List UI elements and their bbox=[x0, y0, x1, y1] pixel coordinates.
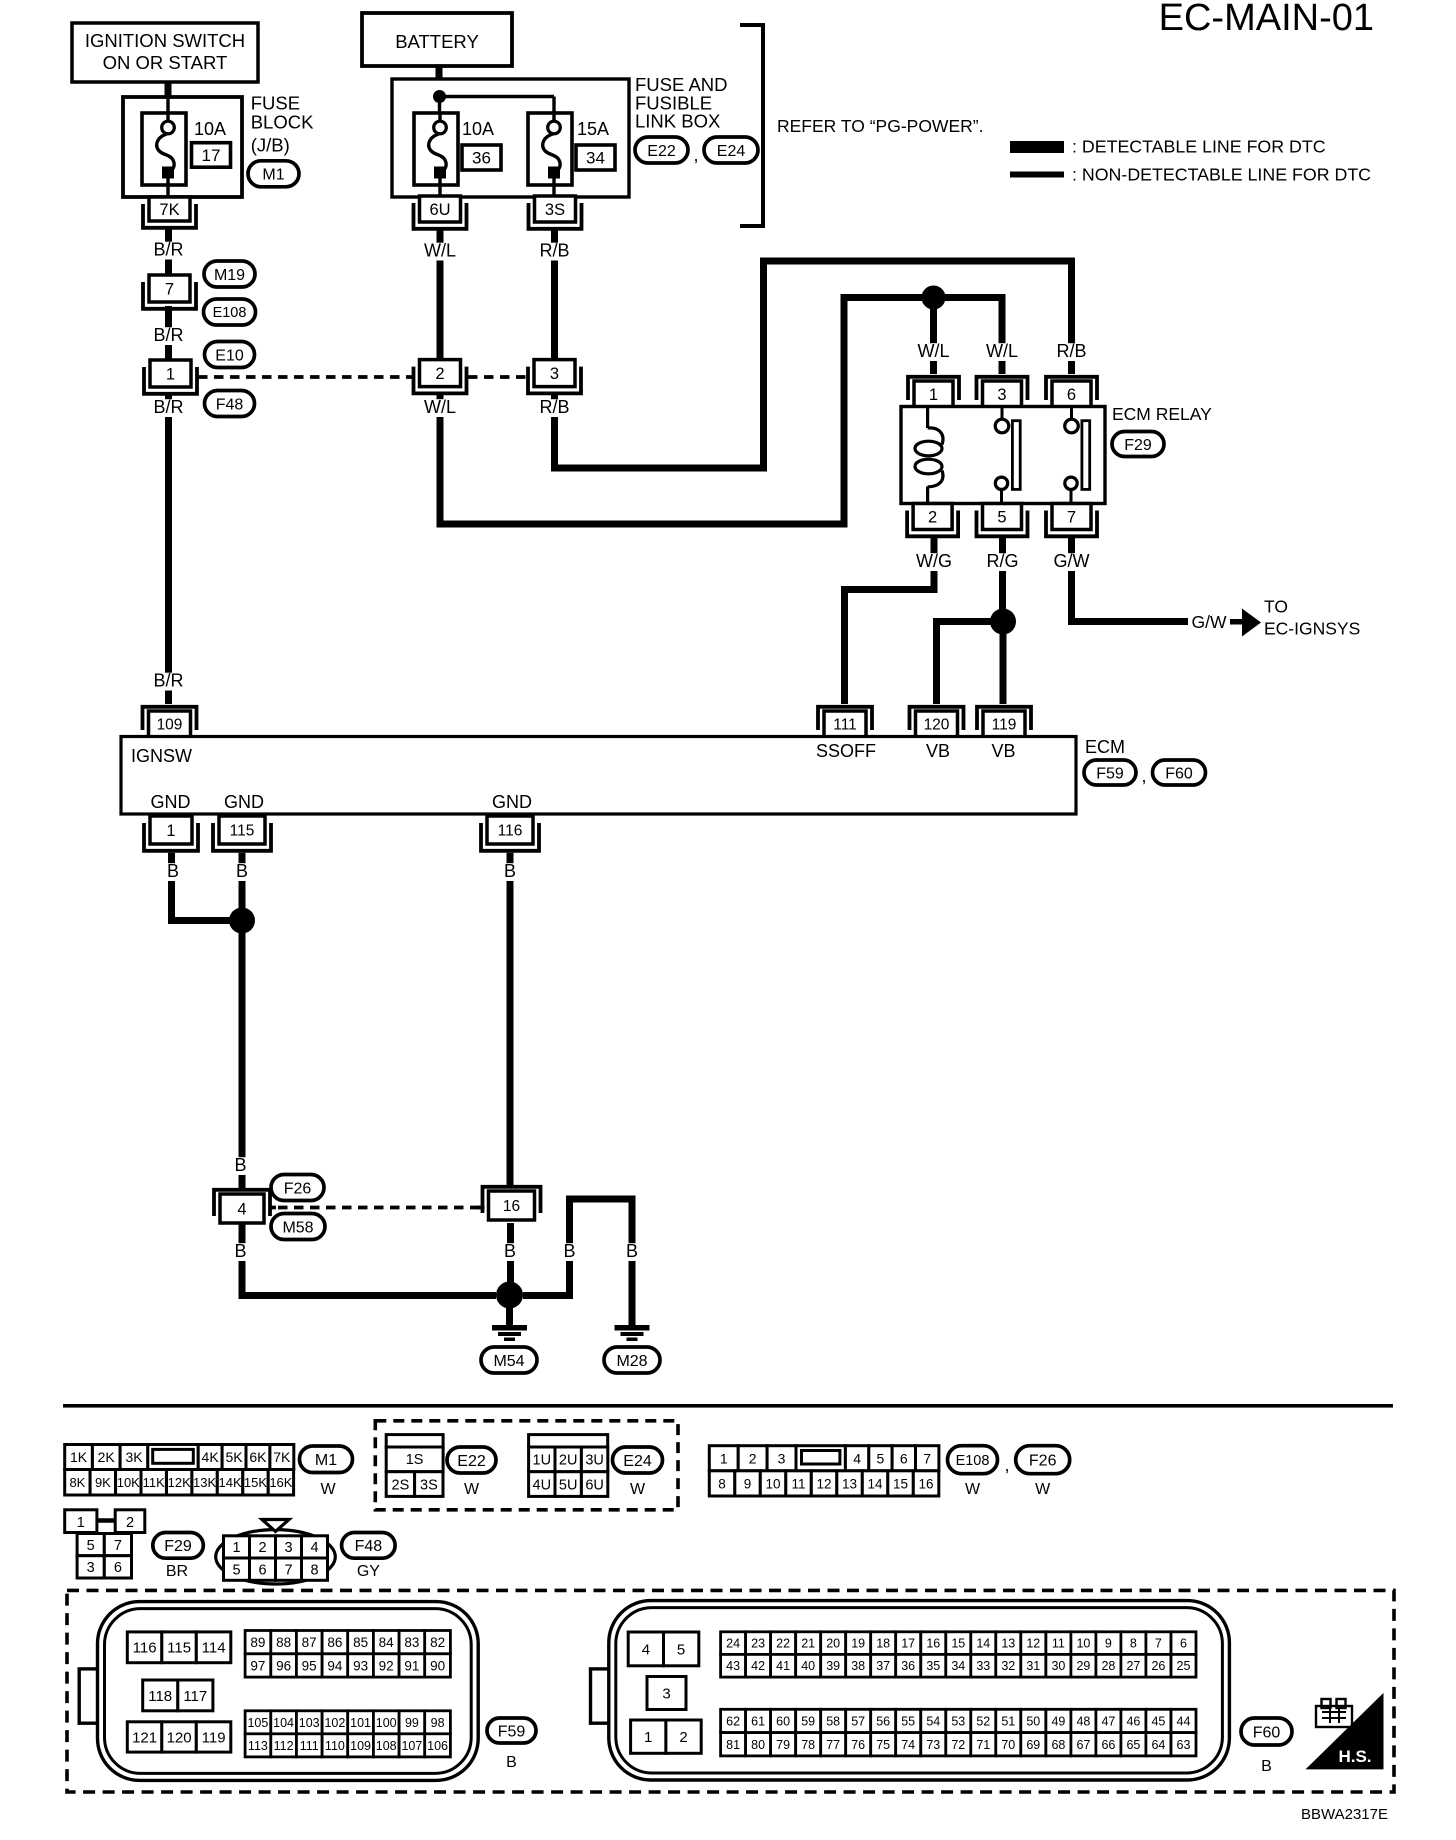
wire ignition switch to fuse block (B/R feed) bbox=[165, 82, 172, 98]
label FUSE BLOCK (J/B) bbox=[251, 93, 314, 156]
svg-text:3: 3 bbox=[997, 386, 1006, 404]
svg-text:GND: GND bbox=[151, 792, 191, 812]
svg-text:B: B bbox=[504, 861, 516, 881]
svg-text:102: 102 bbox=[324, 1716, 345, 1730]
F59 pins 116 115 114 bbox=[127, 1632, 231, 1663]
svg-text:E22: E22 bbox=[647, 143, 676, 160]
svg-text:66: 66 bbox=[1101, 1738, 1115, 1752]
svg-text:61: 61 bbox=[751, 1715, 765, 1729]
svg-text:107: 107 bbox=[401, 1739, 422, 1753]
svg-text:29: 29 bbox=[1076, 1659, 1090, 1673]
node B junction bbox=[229, 908, 255, 934]
wire W/G relay pin 2 to ECM 111 bbox=[845, 537, 953, 705]
relay contact 3-5 bbox=[995, 407, 1020, 504]
svg-text:13K: 13K bbox=[193, 1475, 216, 1490]
svg-text:1: 1 bbox=[232, 1540, 240, 1556]
svg-text:32: 32 bbox=[1001, 1659, 1015, 1673]
svg-text:2S: 2S bbox=[392, 1477, 410, 1493]
connector designator E24 (face view) bbox=[613, 1447, 663, 1498]
ground M28 bbox=[615, 1325, 650, 1341]
svg-text:115: 115 bbox=[230, 823, 255, 840]
F59 pin grid 82-97 bbox=[245, 1631, 450, 1678]
F60 pins 1 2 bbox=[631, 1720, 702, 1753]
svg-text:6: 6 bbox=[258, 1562, 266, 1578]
svg-text:IGNITION SWITCH: IGNITION SWITCH bbox=[85, 30, 245, 51]
wire R/B connector 3 to relay pin 6 bbox=[539, 261, 1088, 468]
wire R/G relay pin 5 bbox=[986, 537, 1018, 611]
svg-text:F26: F26 bbox=[1029, 1453, 1057, 1470]
svg-text:83: 83 bbox=[404, 1635, 419, 1650]
svg-text:25: 25 bbox=[1177, 1659, 1191, 1673]
wire W/L connector 2 to ECM relay bbox=[424, 298, 934, 525]
svg-text:62: 62 bbox=[726, 1715, 740, 1729]
svg-text:16: 16 bbox=[926, 1637, 940, 1651]
svg-text:7: 7 bbox=[114, 1538, 122, 1554]
legend detectable line for DTC bbox=[1010, 137, 1326, 157]
svg-text:74: 74 bbox=[901, 1738, 915, 1752]
drawing number BBWA2317E bbox=[1301, 1806, 1388, 1823]
connector designator M58 bbox=[271, 1214, 325, 1240]
svg-text:18: 18 bbox=[876, 1637, 890, 1651]
svg-text:97: 97 bbox=[250, 1658, 265, 1673]
svg-text:93: 93 bbox=[353, 1658, 368, 1673]
fuse number box 34 bbox=[576, 145, 615, 170]
svg-text:119: 119 bbox=[992, 717, 1017, 734]
relay pin 5 bbox=[977, 504, 1028, 537]
svg-text:SSOFF: SSOFF bbox=[816, 741, 876, 761]
connector pin 3 (E10/F48) bbox=[528, 360, 581, 394]
connector face view E108/F26 grid bbox=[709, 1446, 939, 1496]
node ground junction bbox=[496, 1282, 523, 1309]
svg-text:72: 72 bbox=[951, 1738, 965, 1752]
svg-text:BLOCK: BLOCK bbox=[251, 112, 314, 133]
svg-text:B/R: B/R bbox=[153, 671, 183, 691]
svg-text:37: 37 bbox=[876, 1659, 890, 1673]
svg-text:ECM: ECM bbox=[1085, 737, 1125, 757]
svg-text:VB: VB bbox=[991, 741, 1015, 761]
label ECM RELAY bbox=[1112, 404, 1212, 424]
svg-text:1: 1 bbox=[166, 822, 175, 840]
svg-text:11K: 11K bbox=[143, 1475, 165, 1490]
svg-text:111: 111 bbox=[300, 1739, 319, 1753]
svg-text:B: B bbox=[1261, 1758, 1272, 1775]
svg-text:109: 109 bbox=[350, 1739, 371, 1753]
svg-text:26: 26 bbox=[1151, 1659, 1165, 1673]
ECM relay F29 body bbox=[901, 407, 1105, 504]
svg-text:15: 15 bbox=[893, 1476, 908, 1491]
svg-text:5U: 5U bbox=[559, 1477, 578, 1493]
svg-text:19: 19 bbox=[851, 1637, 865, 1651]
svg-text:31: 31 bbox=[1026, 1659, 1040, 1673]
svg-text:13: 13 bbox=[842, 1476, 857, 1491]
connector designator M19 bbox=[204, 261, 255, 287]
svg-text:85: 85 bbox=[353, 1635, 368, 1650]
svg-text:91: 91 bbox=[404, 1658, 419, 1673]
svg-text:9: 9 bbox=[1105, 1637, 1112, 1651]
F59 pins 118 117 bbox=[143, 1680, 213, 1711]
svg-text:(J/B): (J/B) bbox=[251, 135, 290, 156]
svg-text:117: 117 bbox=[183, 1688, 207, 1705]
svg-text:GY: GY bbox=[357, 1563, 380, 1580]
svg-text:F29: F29 bbox=[1124, 437, 1152, 454]
svg-text:65: 65 bbox=[1126, 1738, 1140, 1752]
svg-text:E22: E22 bbox=[457, 1453, 486, 1470]
dashed link connectors 4-16 bbox=[278, 1206, 480, 1210]
svg-text:23: 23 bbox=[751, 1637, 765, 1651]
reference bracket bbox=[740, 25, 763, 226]
svg-text:11: 11 bbox=[791, 1476, 805, 1491]
svg-text:16K: 16K bbox=[269, 1475, 292, 1490]
svg-text:95: 95 bbox=[302, 1658, 317, 1673]
ECM pin 1 GND bbox=[144, 816, 198, 851]
ECM pin 120 bbox=[910, 707, 964, 737]
svg-text:W/L: W/L bbox=[424, 241, 456, 261]
svg-text:,: , bbox=[1141, 766, 1146, 786]
wire W/L node to relay pin 3 bbox=[945, 298, 1018, 375]
svg-text:53: 53 bbox=[951, 1715, 965, 1729]
svg-text:TO: TO bbox=[1264, 597, 1288, 617]
svg-text:116: 116 bbox=[133, 1640, 157, 1657]
svg-text:111: 111 bbox=[833, 717, 857, 734]
svg-text:99: 99 bbox=[405, 1716, 419, 1730]
svg-text:16: 16 bbox=[503, 1198, 520, 1215]
svg-text:F48: F48 bbox=[355, 1538, 383, 1555]
svg-text:W: W bbox=[630, 1481, 646, 1498]
svg-text:81: 81 bbox=[726, 1738, 740, 1752]
svg-text:15K: 15K bbox=[244, 1475, 267, 1490]
svg-text:101: 101 bbox=[350, 1716, 371, 1730]
svg-text:63: 63 bbox=[1177, 1738, 1191, 1752]
svg-text:36: 36 bbox=[472, 149, 491, 168]
F60 pin grid 44-81 bbox=[721, 1709, 1196, 1756]
svg-text:REFER TO “PG-POWER”.: REFER TO “PG-POWER”. bbox=[777, 116, 983, 136]
value label 15A fuse 34 bbox=[577, 119, 609, 139]
svg-text:14: 14 bbox=[976, 1637, 990, 1651]
wire B connector 4 to ground node bbox=[234, 1223, 496, 1296]
F60 pins 4 5 bbox=[628, 1632, 699, 1666]
svg-text:16: 16 bbox=[918, 1476, 933, 1491]
svg-text:51: 51 bbox=[1001, 1715, 1015, 1729]
wire R/G node to ECM 119 bbox=[1000, 634, 1007, 704]
svg-text:1: 1 bbox=[77, 1515, 85, 1531]
wire B ECM pin 115 to connector 4 bbox=[234, 853, 249, 1190]
svg-text:54: 54 bbox=[926, 1715, 940, 1729]
svg-text:E10: E10 bbox=[215, 347, 244, 364]
svg-text:58: 58 bbox=[826, 1715, 840, 1729]
svg-text:71: 71 bbox=[976, 1738, 990, 1752]
fuse and fusible link box outline bbox=[392, 79, 629, 197]
dashed box E22 E24 bbox=[375, 1421, 678, 1510]
svg-text:W: W bbox=[464, 1481, 480, 1498]
svg-text:ON OR START: ON OR START bbox=[103, 52, 228, 73]
svg-text:BATTERY: BATTERY bbox=[395, 31, 479, 52]
label IGNSW bbox=[131, 746, 192, 766]
svg-text:6U: 6U bbox=[585, 1477, 604, 1493]
svg-text:30: 30 bbox=[1051, 1659, 1065, 1673]
svg-text:108: 108 bbox=[376, 1739, 397, 1753]
svg-text:6U: 6U bbox=[429, 201, 450, 219]
svg-text:W/L: W/L bbox=[986, 341, 1018, 361]
svg-text:5: 5 bbox=[677, 1641, 685, 1658]
svg-text:F26: F26 bbox=[284, 1180, 312, 1197]
ground designator M28 bbox=[604, 1347, 660, 1373]
svg-text:35: 35 bbox=[926, 1659, 940, 1673]
connector designator F26 (face view) bbox=[1016, 1446, 1070, 1498]
wire B/R connector 1 to ECM pin 109 bbox=[153, 394, 185, 704]
svg-text:B: B bbox=[504, 1241, 516, 1261]
ECM pin 109 bbox=[143, 707, 197, 737]
svg-text:8: 8 bbox=[718, 1476, 726, 1491]
svg-text:F60: F60 bbox=[1165, 765, 1193, 782]
connector pin 2 (E10/F48) bbox=[414, 360, 467, 394]
label G/W at arrow bbox=[1192, 612, 1244, 632]
wire battery feed bbox=[436, 66, 443, 91]
svg-text:B/R: B/R bbox=[153, 397, 183, 417]
connector pin 1 (E10/F48) bbox=[144, 360, 197, 394]
svg-text:67: 67 bbox=[1076, 1738, 1090, 1752]
svg-text:90: 90 bbox=[430, 1658, 445, 1673]
svg-text:52: 52 bbox=[976, 1715, 990, 1729]
svg-text:9K: 9K bbox=[95, 1475, 111, 1490]
svg-text:57: 57 bbox=[851, 1715, 865, 1729]
connector face view E24 bbox=[529, 1435, 608, 1497]
svg-text:10A: 10A bbox=[462, 119, 494, 139]
svg-text:4: 4 bbox=[310, 1540, 318, 1556]
fuse 17 10A symbol bbox=[142, 98, 186, 197]
svg-text:7: 7 bbox=[165, 280, 174, 298]
svg-text:F59: F59 bbox=[1096, 765, 1124, 782]
H.S. hot stamp mark bbox=[1305, 1693, 1384, 1770]
wire R/B 3S to connector 3 bbox=[539, 229, 571, 360]
svg-text:27: 27 bbox=[1126, 1659, 1140, 1673]
svg-text:B: B bbox=[506, 1754, 517, 1771]
svg-text:120: 120 bbox=[167, 1729, 192, 1746]
svg-text:55: 55 bbox=[901, 1715, 915, 1729]
svg-text:W: W bbox=[965, 1481, 981, 1498]
svg-text:92: 92 bbox=[379, 1658, 394, 1673]
comma separator bbox=[693, 145, 698, 165]
svg-text:1U: 1U bbox=[533, 1453, 552, 1469]
svg-text:59: 59 bbox=[801, 1715, 815, 1729]
svg-text:2: 2 bbox=[258, 1540, 266, 1556]
svg-text:6: 6 bbox=[1180, 1637, 1187, 1651]
svg-text:3K: 3K bbox=[125, 1449, 143, 1465]
svg-text:4: 4 bbox=[642, 1641, 650, 1658]
svg-text:M28: M28 bbox=[616, 1353, 647, 1370]
connector pin 6U bbox=[414, 196, 467, 229]
svg-text:86: 86 bbox=[327, 1635, 342, 1650]
svg-text:M58: M58 bbox=[282, 1219, 313, 1236]
svg-text:42: 42 bbox=[751, 1659, 765, 1673]
svg-text:15: 15 bbox=[951, 1637, 965, 1651]
svg-text:103: 103 bbox=[299, 1716, 320, 1730]
ground M54 bbox=[492, 1325, 527, 1341]
svg-text:118: 118 bbox=[148, 1688, 172, 1705]
svg-text:6: 6 bbox=[900, 1450, 908, 1466]
wire B connector 16 to ground node bbox=[503, 1223, 516, 1283]
svg-text:60: 60 bbox=[776, 1715, 790, 1729]
relay contact 6-7 bbox=[1065, 407, 1090, 504]
svg-text:105: 105 bbox=[247, 1716, 268, 1730]
svg-text:2: 2 bbox=[126, 1515, 134, 1531]
ground designator M54 bbox=[481, 1347, 537, 1373]
svg-text:24: 24 bbox=[726, 1637, 740, 1651]
fuse 34 15A symbol bbox=[528, 113, 572, 196]
svg-text:,: , bbox=[1004, 1455, 1009, 1475]
relay pin 2 bbox=[907, 504, 958, 537]
svg-text:EC-IGNSYS: EC-IGNSYS bbox=[1264, 619, 1360, 639]
svg-text:6: 6 bbox=[114, 1560, 122, 1576]
svg-text:10A: 10A bbox=[194, 119, 226, 139]
relay coil bbox=[915, 407, 943, 504]
svg-text:64: 64 bbox=[1151, 1738, 1165, 1752]
svg-text:44: 44 bbox=[1177, 1715, 1191, 1729]
svg-text:3: 3 bbox=[662, 1686, 670, 1703]
svg-text:38: 38 bbox=[851, 1659, 865, 1673]
svg-text:47: 47 bbox=[1101, 1715, 1115, 1729]
svg-text:80: 80 bbox=[751, 1738, 765, 1752]
svg-text:7: 7 bbox=[1155, 1637, 1162, 1651]
svg-text:84: 84 bbox=[379, 1635, 395, 1650]
wire W/L node to relay pin 1 bbox=[917, 309, 949, 374]
svg-text:100: 100 bbox=[376, 1716, 397, 1730]
svg-text:2: 2 bbox=[749, 1450, 757, 1466]
svg-text:F48: F48 bbox=[216, 396, 244, 413]
svg-text:40: 40 bbox=[801, 1659, 815, 1673]
svg-text:34: 34 bbox=[586, 149, 605, 168]
battery source box bbox=[362, 13, 512, 66]
connector designator E10 bbox=[205, 342, 255, 368]
node R/G junction bbox=[990, 609, 1016, 635]
svg-text:M54: M54 bbox=[493, 1353, 524, 1370]
svg-text:EC-MAIN-01: EC-MAIN-01 bbox=[1159, 0, 1374, 39]
connector designator M1 (face view) bbox=[300, 1446, 353, 1498]
svg-text:3: 3 bbox=[550, 365, 559, 383]
connector designator F59 (ECM) bbox=[1084, 760, 1136, 785]
svg-text:11: 11 bbox=[1052, 1637, 1065, 1651]
svg-text:VB: VB bbox=[926, 741, 950, 761]
svg-text:7K: 7K bbox=[273, 1449, 291, 1465]
svg-text:12: 12 bbox=[1026, 1637, 1040, 1651]
svg-text:ECM RELAY: ECM RELAY bbox=[1112, 404, 1212, 424]
value label 10A fuse 17 bbox=[194, 119, 226, 139]
svg-text:7: 7 bbox=[1067, 508, 1076, 526]
svg-text:4U: 4U bbox=[533, 1477, 552, 1493]
svg-text:: DETECTABLE LINE FOR DTC: : DETECTABLE LINE FOR DTC bbox=[1072, 137, 1326, 157]
svg-text:H.S.: H.S. bbox=[1338, 1747, 1371, 1766]
svg-text:106: 106 bbox=[427, 1739, 448, 1753]
svg-text:22: 22 bbox=[776, 1637, 790, 1651]
svg-text:BBWA2317E: BBWA2317E bbox=[1301, 1806, 1388, 1823]
svg-text:9: 9 bbox=[744, 1476, 752, 1491]
connector designator F60 (ECM) bbox=[1153, 760, 1206, 785]
svg-text:8: 8 bbox=[310, 1562, 318, 1578]
svg-text:R/G: R/G bbox=[986, 551, 1018, 571]
svg-text:W/L: W/L bbox=[917, 341, 949, 361]
connector designator E108 bbox=[204, 299, 256, 325]
connector designator M1 bbox=[248, 161, 299, 187]
svg-text:114: 114 bbox=[202, 1640, 226, 1657]
svg-text:1: 1 bbox=[720, 1450, 728, 1466]
svg-text:113: 113 bbox=[248, 1739, 268, 1753]
svg-text:15A: 15A bbox=[577, 119, 609, 139]
svg-text:1: 1 bbox=[929, 386, 938, 404]
label GND pin 1 bbox=[151, 792, 191, 812]
svg-text:5: 5 bbox=[877, 1450, 885, 1466]
svg-text:75: 75 bbox=[876, 1738, 890, 1752]
connector designator E22 (face view) bbox=[447, 1447, 496, 1498]
ECM pin 119 bbox=[977, 707, 1031, 737]
svg-text:116: 116 bbox=[498, 823, 523, 840]
svg-text:28: 28 bbox=[1101, 1659, 1115, 1673]
svg-text:3S: 3S bbox=[420, 1477, 438, 1493]
connector designator F60 (face view) bbox=[1241, 1718, 1292, 1775]
svg-text:50: 50 bbox=[1026, 1715, 1040, 1729]
svg-text:39: 39 bbox=[826, 1659, 840, 1673]
ECM connector F59 housing bbox=[79, 1602, 478, 1781]
comma separator face views bbox=[1004, 1455, 1009, 1475]
svg-text:115: 115 bbox=[167, 1640, 191, 1657]
svg-text:120: 120 bbox=[924, 717, 950, 734]
F59 pin grid 98-113 bbox=[245, 1711, 450, 1757]
svg-text:88: 88 bbox=[276, 1635, 291, 1650]
svg-text:LINK BOX: LINK BOX bbox=[635, 111, 720, 132]
svg-text:68: 68 bbox=[1051, 1738, 1065, 1752]
svg-text:78: 78 bbox=[801, 1738, 815, 1752]
F59 pins 121 120 119 bbox=[127, 1722, 231, 1752]
svg-text:109: 109 bbox=[157, 717, 183, 734]
connector designator F29 bbox=[1112, 432, 1164, 457]
dashed link line connectors 1-2-3 bbox=[198, 375, 531, 379]
connector face view F48 bbox=[216, 1520, 336, 1585]
svg-text:F29: F29 bbox=[164, 1538, 192, 1555]
label GND pin 115 bbox=[224, 792, 264, 812]
F60 pin grid 6-43 bbox=[721, 1632, 1196, 1677]
svg-text:1: 1 bbox=[166, 365, 175, 383]
svg-text:G/W: G/W bbox=[1192, 612, 1227, 632]
connector face view F29 bbox=[65, 1510, 145, 1578]
svg-text:46: 46 bbox=[1126, 1715, 1140, 1729]
svg-text:B: B bbox=[234, 1155, 246, 1175]
svg-text:2K: 2K bbox=[98, 1449, 116, 1465]
label VB pin 119 bbox=[991, 741, 1015, 761]
svg-text:FUSE: FUSE bbox=[251, 93, 300, 114]
svg-text:14: 14 bbox=[867, 1476, 883, 1491]
connector face view E22 bbox=[386, 1435, 443, 1497]
svg-text:R/B: R/B bbox=[539, 397, 569, 417]
svg-text:B: B bbox=[236, 861, 248, 881]
note REFER TO PG-POWER bbox=[777, 116, 983, 136]
connector pin 16 (F26/M58) bbox=[477, 1187, 541, 1220]
svg-text:7: 7 bbox=[284, 1562, 292, 1578]
svg-text:3: 3 bbox=[87, 1560, 95, 1576]
title EC-MAIN-01 bbox=[1159, 0, 1374, 39]
svg-text:4K: 4K bbox=[202, 1449, 220, 1465]
svg-text:45: 45 bbox=[1151, 1715, 1165, 1729]
svg-text:13: 13 bbox=[1001, 1637, 1015, 1651]
svg-text:34: 34 bbox=[951, 1659, 965, 1673]
svg-text:G/W: G/W bbox=[1054, 551, 1090, 571]
svg-text:5: 5 bbox=[87, 1538, 95, 1554]
svg-text:10: 10 bbox=[765, 1476, 780, 1491]
connector pin 7 bbox=[143, 275, 196, 309]
svg-text:4: 4 bbox=[237, 1200, 246, 1218]
svg-text:W: W bbox=[1035, 1481, 1051, 1498]
connector designator F59 (face view) bbox=[487, 1718, 536, 1771]
ECM pin 116 GND bbox=[481, 816, 539, 851]
svg-text:121: 121 bbox=[132, 1729, 157, 1746]
svg-text:2U: 2U bbox=[559, 1453, 578, 1469]
